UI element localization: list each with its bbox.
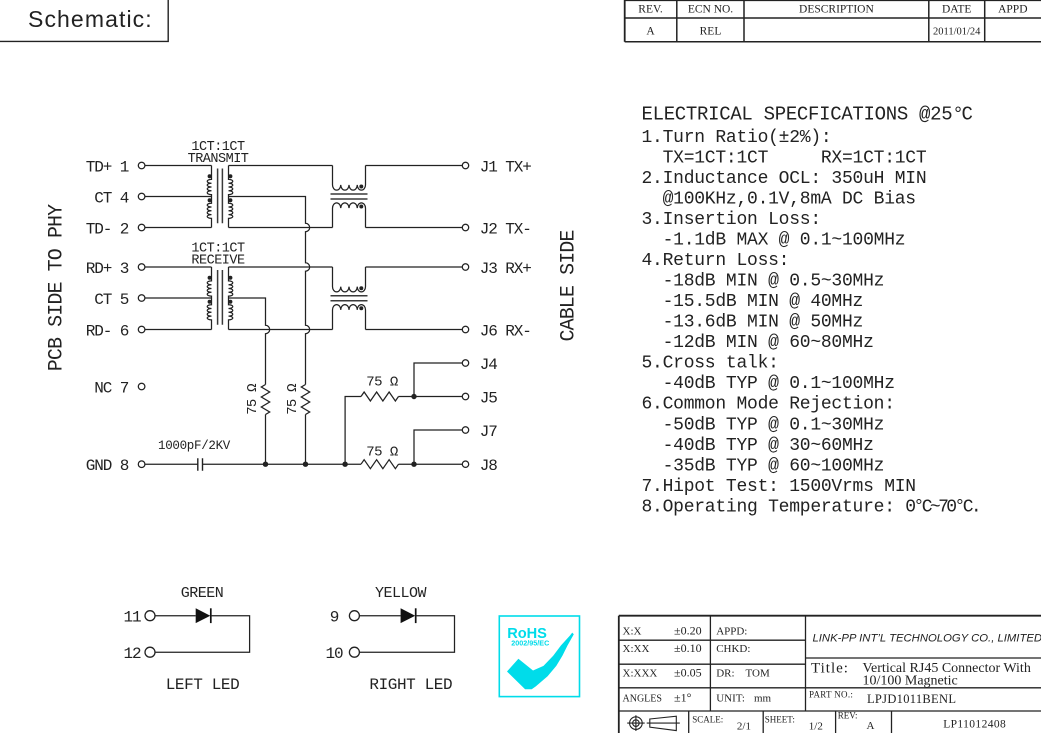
junction dot J5 node (411, 394, 416, 399)
transformer T2 secondary winding (228, 267, 232, 330)
svg-text:ANGLES: ANGLES (623, 694, 662, 705)
svg-text:±0.20: ±0.20 (674, 624, 702, 638)
label transformer T1 (188, 140, 249, 167)
choke CMC2 core (331, 296, 368, 301)
svg-text:APPD:: APPD: (716, 626, 747, 638)
pin J1 TX+ (462, 158, 531, 176)
pin 12 (123, 645, 155, 663)
svg-text:TD- 2: TD- 2 (86, 220, 129, 238)
svg-text:J3 RX+: J3 RX+ (480, 260, 532, 278)
pin J7 (462, 423, 497, 441)
electrical specifications list (642, 128, 980, 518)
svg-text:1/2: 1/2 (809, 721, 823, 733)
wire CMC2 to J6 (366, 329, 463, 331)
svg-text:J6 RX-: J6 RX- (480, 322, 531, 340)
transformer T2 core (218, 270, 223, 325)
svg-text:75 Ω: 75 Ω (285, 384, 301, 415)
projection symbol (627, 715, 680, 731)
wire TD+ pin1 to T1 (145, 165, 212, 167)
wire R3 to J5 (399, 396, 463, 398)
svg-text:6.Common Mode Rejection:: 6.Common Mode Rejection: (642, 395, 895, 415)
svg-text:J8: J8 (480, 457, 498, 475)
svg-text:1.Turn Ratio(±2%):: 1.Turn Ratio(±2%): (642, 128, 832, 148)
wire J8 node to J7 (414, 430, 462, 464)
svg-text:-15.5dB MIN @ 40MHz: -15.5dB MIN @ 40MHz (642, 292, 864, 312)
pin 1 TD+ (86, 158, 145, 176)
svg-text:ECN NO.: ECN NO. (688, 3, 733, 15)
wire T2 secondary CT to R1 with hop (229, 298, 270, 385)
title block borders (619, 616, 1041, 733)
title text (811, 661, 1031, 689)
approval column text (716, 626, 771, 705)
pin 11 (123, 609, 155, 627)
pin J4 (462, 356, 497, 374)
svg-text:APPD: APPD (998, 3, 1027, 15)
svg-text:2011/01/24: 2011/01/24 (933, 27, 981, 38)
wire CT pin4 to T1 (145, 196, 212, 198)
svg-text:X:XXX: X:XXX (623, 668, 658, 680)
svg-text:J2 TX-: J2 TX- (480, 220, 531, 238)
capacitor C1 1000pF/2KV (158, 439, 231, 471)
transformer T1 primary winding (207, 166, 211, 228)
svg-text:ELECTRICAL SPECFICATIONS @25°C: ELECTRICAL SPECFICATIONS @25°C (642, 103, 973, 125)
svg-text:DESCRIPTION: DESCRIPTION (799, 3, 874, 15)
label transformer T2 (191, 242, 245, 269)
svg-text:9: 9 (330, 609, 339, 627)
svg-text:LP11012408: LP11012408 (943, 719, 1006, 731)
wire R4 to J8 (399, 463, 463, 465)
RoHS logo box (499, 616, 579, 697)
svg-text:UNIT:: UNIT: (716, 693, 745, 705)
svg-text:YELLOW: YELLOW (375, 585, 427, 602)
svg-text:±1°: ±1° (674, 691, 692, 705)
pin 2 TD- (86, 220, 145, 238)
svg-text:75 Ω: 75 Ω (245, 384, 261, 415)
wire D2 to pin10 (360, 616, 455, 653)
svg-text:A: A (646, 26, 655, 38)
wire D1 to pin12 (155, 616, 250, 653)
wire pin9 to D2 (360, 615, 401, 617)
svg-text:RIGHT LED: RIGHT LED (369, 676, 452, 694)
pin 9 (330, 609, 360, 627)
wire bus to R3 branch (345, 397, 361, 465)
svg-text:2002/95/EC: 2002/95/EC (511, 638, 549, 647)
svg-text:PCB SIDE TO PHY: PCB SIDE TO PHY (46, 204, 69, 371)
svg-text:-40dB TYP @ 0.1~100MHz: -40dB TYP @ 0.1~100MHz (642, 374, 895, 394)
svg-text:-1.1dB MAX @ 0.1~100MHz: -1.1dB MAX @ 0.1~100MHz (642, 231, 906, 251)
svg-text:A: A (867, 720, 875, 732)
svg-text:RD+ 3: RD+ 3 (86, 260, 129, 278)
svg-text:-12dB MIN @ 60~80MHz: -12dB MIN @ 60~80MHz (642, 333, 874, 353)
pin J2 TX- (462, 220, 531, 238)
wire T1 secondary CT to R2 with hops (229, 197, 310, 385)
pin 4 CT (94, 189, 145, 207)
scale cell (692, 715, 751, 733)
wire CT pin5 to T2 (145, 297, 212, 299)
svg-text:J4: J4 (480, 356, 498, 374)
choke CMC1 core (331, 194, 368, 199)
svg-text:J7: J7 (480, 423, 498, 441)
svg-text:Title:: Title: (811, 661, 849, 677)
junction dot R2 bus (303, 462, 308, 467)
svg-text:J1 TX+: J1 TX+ (480, 158, 532, 176)
svg-text:-40dB TYP @ 30~60MHz: -40dB TYP @ 30~60MHz (642, 436, 874, 456)
svg-text:CT 4: CT 4 (94, 189, 129, 207)
svg-text:GND 8: GND 8 (86, 457, 129, 475)
svg-text:J5: J5 (480, 389, 498, 407)
wire CMC2 to J3 (366, 266, 463, 268)
svg-text:REV:: REV: (838, 711, 858, 721)
RoHS logo text (507, 626, 549, 647)
svg-text:TD+ 1: TD+ 1 (86, 158, 129, 176)
svg-text:CHKD:: CHKD: (716, 643, 750, 655)
svg-text:12: 12 (123, 645, 141, 663)
svg-text:±0.05: ±0.05 (674, 666, 702, 680)
svg-text:-18dB MIN @ 0.5~30MHz: -18dB MIN @ 0.5~30MHz (642, 272, 885, 292)
pin J6 RX- (462, 322, 531, 340)
wire GND pin8 to capacitor (145, 463, 198, 465)
revision table (625, 0, 1041, 42)
svg-text:2.Inductance OCL: 350uH MIN: 2.Inductance OCL: 350uH MIN (642, 169, 927, 189)
junction dot R1 bus (263, 462, 268, 467)
wire CMC1 to J2 (366, 227, 463, 229)
svg-text:±0.10: ±0.10 (674, 641, 702, 655)
pin J5 (462, 389, 497, 407)
svg-text:2/1: 2/1 (737, 721, 751, 733)
pin J8 (462, 457, 497, 475)
choke CMC2 bottom winding (333, 305, 366, 330)
svg-text:Schematic:: Schematic: (28, 6, 153, 32)
resistor R2 75ohm (285, 384, 310, 415)
svg-text:LPJD1011BENL: LPJD1011BENL (867, 692, 956, 706)
junction dot R3 branch (342, 462, 347, 467)
svg-text:LINK-PP INT’L TECHNOLOGY CO.,: LINK-PP INT’L TECHNOLOGY CO., LIMITED (813, 633, 1041, 645)
choke CMC1 top winding (333, 166, 366, 191)
wire T2 secondary bottom to CMC2 (229, 329, 333, 331)
svg-text:TOM: TOM (746, 668, 770, 680)
pin 6 RD- (86, 322, 145, 340)
revision row A (646, 26, 981, 38)
svg-text:-35dB TYP @ 60~100MHz: -35dB TYP @ 60~100MHz (642, 456, 885, 476)
svg-text:SHEET:: SHEET: (765, 715, 795, 725)
part number (809, 690, 956, 707)
wire TD- pin2 to T1 (145, 227, 212, 229)
svg-text:NC 7: NC 7 (94, 379, 129, 397)
wire RD+ pin3 to T2 (145, 266, 212, 268)
svg-text:GREEN: GREEN (181, 585, 224, 602)
svg-text:LEFT LED: LEFT LED (166, 676, 240, 694)
svg-text:SCALE:: SCALE: (692, 715, 723, 725)
svg-text:DR:: DR: (716, 668, 734, 680)
pin 8 GND (86, 457, 145, 475)
wire J5 node to J4 (414, 363, 462, 397)
svg-text:TX=1CT:1CT RX=1CT:1CT: TX=1CT:1CT RX=1CT:1CT (642, 148, 927, 168)
choke CMC1 bottom winding (333, 203, 366, 228)
svg-text:4.Return Loss:: 4.Return Loss: (642, 251, 790, 271)
wire T2 secondary top to CMC2 (229, 266, 333, 268)
resistor R3 75ohm (361, 374, 399, 401)
svg-text:75 Ω: 75 Ω (366, 374, 398, 390)
wire CMC1 to J1 (366, 165, 463, 167)
RoHS checkmark (507, 633, 574, 690)
resistor R1 75ohm (245, 384, 270, 415)
wire RD- pin6 to T2 (145, 329, 212, 331)
pin 5 CT (94, 291, 145, 309)
wire T1 secondary top to CMC1 (229, 165, 333, 167)
svg-text:-50dB TYP @ 0.1~30MHz: -50dB TYP @ 0.1~30MHz (642, 415, 885, 435)
diode D2 yellow LED (401, 608, 416, 623)
wire R2 to GND bus (305, 415, 307, 465)
svg-text:3.Insertion Loss:: 3.Insertion Loss: (642, 210, 821, 230)
resistor R4 75ohm (361, 444, 399, 468)
svg-text:1000pF/2KV: 1000pF/2KV (158, 439, 231, 453)
diode D1 green LED (196, 608, 211, 623)
pin 10 (325, 645, 359, 663)
transformer T1 core (218, 169, 223, 224)
transformer T2 primary winding (207, 267, 211, 330)
svg-text:10/100 Magnetic: 10/100 Magnetic (863, 674, 958, 689)
svg-text:REV.: REV. (638, 3, 663, 15)
wire T1 secondary bottom to CMC1 (229, 227, 333, 229)
svg-text:10: 10 (325, 645, 343, 663)
schematic title box (0, 0, 168, 41)
svg-text:X:X: X:X (623, 626, 642, 638)
junction dot J8 node (411, 462, 416, 467)
svg-text:8.Operating Temperature: 0°C~7: 8.Operating Temperature: 0°C~70°C. (642, 497, 980, 517)
wire pin11 to D1 (155, 615, 196, 617)
pin 3 RD+ (86, 260, 145, 278)
svg-text:CABLE SIDE: CABLE SIDE (558, 230, 581, 341)
svg-text:75 Ω: 75 Ω (366, 444, 398, 460)
revision table header text (638, 3, 1027, 15)
svg-text:7.Hipot Test: 1500Vrms MIN: 7.Hipot Test: 1500Vrms MIN (642, 477, 916, 497)
svg-text:mm: mm (754, 693, 772, 705)
svg-text:PART NO.:: PART NO.: (809, 690, 853, 700)
svg-text:X:XX: X:XX (623, 643, 650, 655)
svg-text:DATE: DATE (942, 3, 971, 15)
rev cell (838, 711, 875, 733)
transformer T1 secondary winding (228, 166, 232, 228)
wire R1 to GND bus (265, 415, 267, 465)
svg-text:@100KHz,0.1V,8mA DC Bias: @100KHz,0.1V,8mA DC Bias (642, 189, 916, 209)
sheet cell (765, 715, 823, 733)
svg-text:RD- 6: RD- 6 (86, 322, 129, 340)
pin J3 RX+ (462, 260, 531, 278)
choke CMC2 top winding (333, 267, 366, 292)
svg-text:5.Cross talk:: 5.Cross talk: (642, 354, 779, 374)
svg-text:11: 11 (123, 609, 141, 627)
tolerance table text (623, 624, 702, 705)
svg-text:CT 5: CT 5 (94, 291, 129, 309)
svg-text:REL: REL (700, 26, 722, 38)
ground bus wire (203, 463, 362, 465)
pin 7 NC (94, 379, 145, 397)
svg-text:-13.6dB MIN @ 50MHz: -13.6dB MIN @ 50MHz (642, 313, 864, 333)
